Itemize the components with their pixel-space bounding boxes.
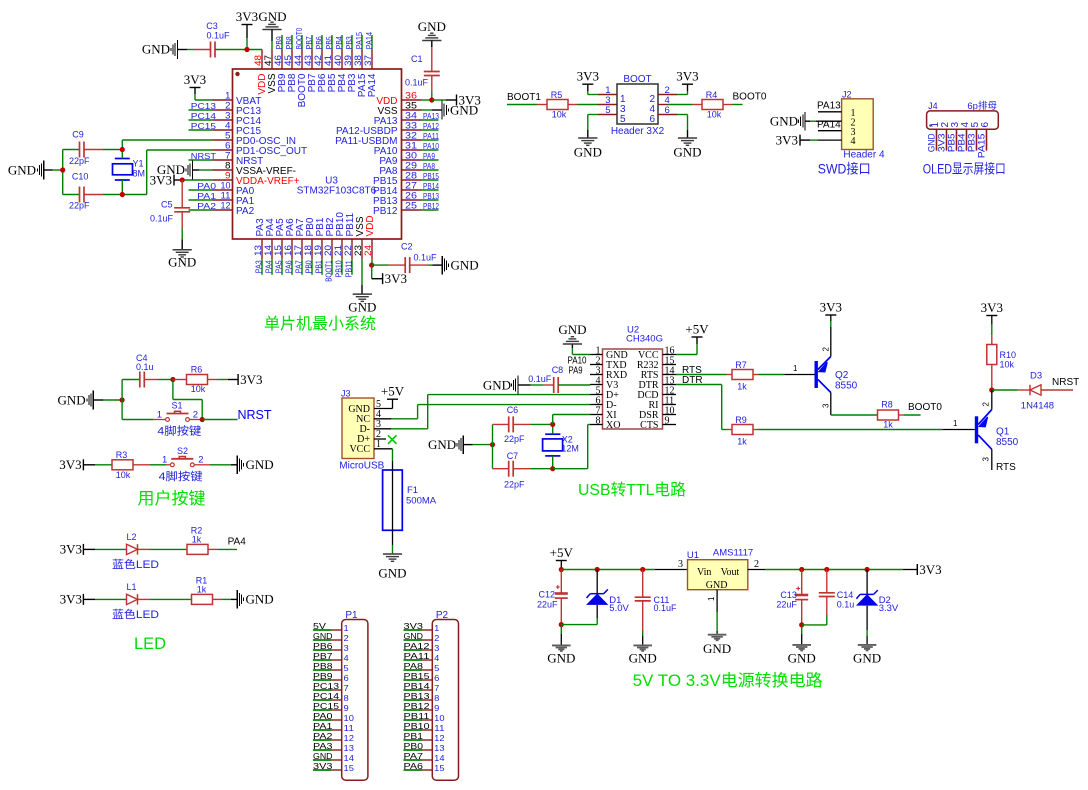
svg-text:R7: R7 (735, 360, 747, 370)
svg-text:PB0: PB0 (404, 741, 424, 751)
svg-text:PB13: PB13 (423, 192, 439, 201)
svg-text:GND: GND (313, 751, 333, 761)
svg-text:R3: R3 (116, 450, 128, 460)
svg-text:7: 7 (434, 683, 439, 693)
svg-text:PA8: PA8 (404, 661, 424, 671)
svg-text:BOOT1: BOOT1 (507, 92, 541, 103)
title power conversion (633, 671, 823, 690)
wire J3 pin1 to fuse (374, 449, 393, 470)
svg-text:PB9: PB9 (313, 671, 333, 681)
svg-text:13: 13 (434, 743, 445, 753)
LED L2 (112, 532, 187, 571)
header BOOT pin2 wire (658, 94, 677, 96)
power 3V3 at pin 9 (VDDA) (150, 172, 183, 187)
svg-text:1: 1 (162, 455, 167, 466)
svg-text:BOOT1: BOOT1 (325, 260, 334, 282)
svg-text:P1: P1 (345, 610, 358, 621)
svg-text:PA0: PA0 (313, 711, 333, 721)
svg-text:1: 1 (793, 364, 798, 373)
svg-text:5: 5 (620, 114, 626, 125)
svg-text:R5: R5 (551, 90, 563, 100)
svg-text:GND: GND (418, 19, 446, 34)
power 3V3 top (236, 9, 258, 50)
svg-text:PC13: PC13 (191, 102, 217, 111)
svg-text:0.1uF: 0.1uF (405, 78, 429, 88)
svg-text:PA4: PA4 (228, 536, 247, 547)
svg-text:PC15: PC15 (313, 701, 339, 711)
power 3V3 at pin 1 (184, 72, 213, 100)
junction X2 bottom (550, 466, 555, 471)
wire BOOT pin6 to GND (677, 115, 688, 139)
svg-text:1k: 1k (192, 535, 202, 545)
svg-text:1: 1 (434, 623, 439, 633)
svg-text:2: 2 (754, 559, 759, 570)
svg-text:PB14: PB14 (404, 681, 430, 691)
capacitor C7 (493, 451, 553, 489)
junction rail D2 (865, 567, 870, 572)
power GND left of C6 C7 (428, 435, 492, 454)
svg-text:C7: C7 (507, 451, 519, 461)
svg-text:PB0: PB0 (305, 260, 314, 273)
svg-text:10k: 10k (707, 110, 722, 120)
svg-text:+5V: +5V (550, 545, 574, 560)
svg-text:GND: GND (142, 42, 170, 57)
net label BOOT0 right of R4 (733, 91, 767, 104)
svg-text:3V3: 3V3 (59, 457, 81, 472)
crystal Y1 (113, 150, 146, 195)
svg-text:PB11: PB11 (345, 260, 354, 278)
capacitor C13 (776, 570, 808, 625)
label OLED interface (923, 161, 1006, 177)
svg-text:Q1: Q1 (996, 427, 1010, 438)
svg-text:GND: GND (451, 257, 479, 272)
svg-text:BOOT: BOOT (623, 74, 651, 85)
header BOOT pin1 wire (598, 94, 617, 96)
wire R7 to Q2 base (759, 364, 815, 375)
svg-text:PB10: PB10 (404, 721, 430, 731)
zener D2 (856, 570, 899, 645)
wire S1 left vertical (121, 380, 123, 420)
svg-text:AMS1117: AMS1117 (713, 548, 753, 559)
resistor R9 (727, 415, 759, 447)
header BOOT pin5 wire (598, 114, 617, 116)
power 3V3 output (917, 562, 941, 577)
header P2 body (432, 610, 458, 780)
svg-text:4脚按键: 4脚按键 (159, 469, 203, 483)
svg-text:GND: GND (703, 641, 731, 656)
wire 5V rail (561, 559, 687, 570)
svg-text:14: 14 (434, 753, 445, 763)
svg-text:Header 3X2: Header 3X2 (611, 126, 665, 137)
svg-text:PA11: PA11 (423, 132, 439, 141)
svg-text:GND: GND (629, 651, 657, 666)
svg-text:3V3: 3V3 (240, 372, 262, 387)
svg-text:PB12: PB12 (373, 206, 398, 217)
svg-text:10: 10 (344, 713, 355, 723)
wire BOOT pin5 to GND (588, 115, 598, 139)
svg-text:PA2: PA2 (313, 731, 333, 741)
transistor Q1 (975, 390, 1019, 449)
zener D1 (561, 570, 629, 625)
header BOOT pin4 wire (658, 104, 693, 106)
svg-text:3V3: 3V3 (60, 592, 82, 607)
wire R6 junction to S1 pin2 (173, 380, 202, 420)
wire fuse to GND (392, 530, 394, 554)
title LED (134, 635, 166, 653)
capacitor C2 (372, 242, 437, 274)
svg-text:GND: GND (168, 255, 196, 270)
junction C12 bottom (559, 622, 564, 627)
svg-text:J4: J4 (928, 101, 938, 111)
power 3V3 left of BOOT (577, 69, 599, 95)
power GND right of C2 (432, 256, 478, 275)
svg-text:SWD接口: SWD接口 (818, 161, 871, 177)
svg-text:BOOT0: BOOT0 (733, 91, 767, 102)
capacitor C10 (63, 172, 123, 211)
header BOOT pin6 wire (658, 114, 677, 116)
power GND right of S2 (231, 456, 274, 475)
svg-text:PA1: PA1 (313, 721, 333, 731)
svg-text:用户按键: 用户按键 (138, 489, 206, 508)
svg-text:Y1: Y1 (133, 158, 144, 168)
svg-text:BOOT0: BOOT0 (908, 402, 942, 413)
U3 bottom pin names and numbers (253, 212, 376, 256)
junction at VDDA (180, 177, 185, 182)
svg-text:PB15: PB15 (423, 172, 439, 181)
title user buttons (138, 489, 206, 508)
svg-text:F1: F1 (407, 485, 418, 496)
svg-text:3: 3 (982, 457, 991, 462)
svg-text:STM32F103C8T6: STM32F103C8T6 (297, 186, 377, 197)
capacitor C8 (528, 365, 590, 393)
power GND right of pin 35 (422, 101, 479, 120)
svg-text:10k: 10k (116, 470, 131, 480)
svg-text:GND: GND (348, 300, 376, 315)
junction rail C13 (799, 567, 804, 572)
svg-text:VDD: VDD (365, 215, 376, 236)
resistor R8 (878, 400, 905, 430)
svg-text:3V3: 3V3 (404, 621, 424, 631)
power 3V3 left of L2 (60, 542, 127, 557)
junction C4-R6 (170, 377, 175, 382)
wire J3 pin3 to U2 D+ (374, 395, 590, 429)
header BOOT box (611, 74, 665, 137)
svg-text:CH340G: CH340G (626, 334, 663, 345)
no-connect X at J3 pin2 (374, 435, 397, 444)
svg-text:LED: LED (134, 635, 166, 653)
diode D3 (992, 371, 1073, 412)
svg-text:1: 1 (157, 409, 162, 420)
ground below C13 (788, 645, 816, 665)
svg-text:CTS: CTS (640, 420, 658, 431)
svg-text:6: 6 (980, 122, 991, 128)
svg-text:PB1: PB1 (315, 260, 324, 273)
wire X2 top to U2 XI (553, 415, 590, 425)
svg-text:GND: GND (558, 322, 586, 337)
svg-text:15: 15 (344, 763, 355, 773)
svg-text:GND: GND (483, 377, 511, 392)
wire X2 bottom to U2 XO (553, 425, 590, 469)
svg-text:PA0: PA0 (197, 182, 217, 191)
svg-text:PB6: PB6 (315, 36, 324, 49)
junction crystal bottom (120, 192, 125, 197)
svg-text:蓝色LED: 蓝色LED (112, 607, 159, 621)
svg-text:GND: GND (404, 631, 424, 641)
resistor R3 (112, 450, 150, 480)
header P2 pins (404, 621, 445, 773)
power GND above C1 (418, 19, 446, 47)
power +5V above U2 VCC (676, 322, 709, 355)
power 3V3 below pin 24 (372, 265, 407, 286)
junction rail C14 (824, 567, 829, 572)
svg-text:GND: GND (378, 566, 406, 581)
svg-text:P2: P2 (436, 610, 449, 621)
svg-text:3V3: 3V3 (385, 271, 407, 286)
svg-text:10k: 10k (552, 110, 567, 120)
svg-text:22pF: 22pF (69, 156, 90, 166)
svg-text:GND: GND (673, 145, 701, 160)
junction C6-C7 left (490, 442, 495, 447)
svg-text:PA15: PA15 (977, 134, 988, 159)
wire U2 DTR to R9 (676, 385, 727, 430)
capacitor C12 (537, 570, 568, 625)
svg-text:5.0V: 5.0V (609, 603, 629, 614)
wire junction down to C5 (181, 180, 183, 208)
svg-text:1: 1 (344, 623, 349, 633)
svg-text:6p排母: 6p排母 (967, 100, 997, 112)
title minimal system (264, 315, 376, 333)
net label PA10 at U2 pin2 (568, 356, 587, 367)
wire U1 out rail (748, 559, 918, 570)
connector J3 pin names (348, 399, 381, 455)
svg-text:PA3: PA3 (313, 741, 333, 751)
svg-text:3V3: 3V3 (150, 172, 172, 187)
svg-text:PB4: PB4 (335, 36, 344, 49)
svg-text:S2: S2 (177, 446, 188, 456)
svg-text:3V3: 3V3 (184, 72, 206, 87)
U3 left pin names and numbers (221, 91, 308, 217)
wire Q2 collector to R8 (822, 393, 878, 416)
wire C13 to GND (801, 625, 803, 644)
svg-text:5: 5 (434, 663, 439, 673)
svg-text:PA14: PA14 (817, 120, 841, 131)
wire C12 to GND (560, 625, 562, 645)
svg-text:RTS: RTS (996, 462, 1016, 473)
capacitor C11 (635, 570, 677, 645)
svg-text:2: 2 (982, 402, 991, 407)
svg-text:Header 4: Header 4 (843, 150, 885, 161)
svg-text:Vin: Vin (697, 567, 711, 578)
wire C9-C10 left vertical (62, 150, 64, 195)
svg-text:11: 11 (434, 723, 445, 733)
net label RTS at U2 pin14 (682, 365, 702, 376)
svg-text:0.1uF: 0.1uF (654, 603, 678, 613)
junction rail D1 (595, 567, 600, 572)
svg-text:PB12: PB12 (423, 202, 439, 211)
header P1 body (342, 610, 368, 780)
svg-text:PB8: PB8 (285, 36, 294, 49)
net label NRST at S1 (202, 408, 272, 422)
header BOOT pin numbers (605, 85, 670, 125)
svg-text:GND: GND (8, 162, 36, 177)
svg-text:C5: C5 (161, 200, 173, 210)
svg-text:10k: 10k (1000, 360, 1015, 370)
svg-text:4脚按键: 4脚按键 (157, 423, 201, 437)
svg-text:0.1uF: 0.1uF (206, 31, 230, 41)
svg-text:C14: C14 (837, 590, 854, 600)
power GND above U2 (558, 322, 590, 355)
svg-text:S1: S1 (171, 401, 182, 411)
svg-text:PA6: PA6 (404, 761, 424, 771)
ground below BOOT right (673, 138, 701, 160)
svg-text:3V3: 3V3 (236, 9, 258, 24)
svg-text:12: 12 (344, 733, 355, 743)
junction 3V3-C3 (244, 47, 249, 52)
svg-text:NRST: NRST (1052, 377, 1079, 388)
svg-text:GND: GND (547, 651, 575, 666)
svg-text:PB15: PB15 (404, 671, 430, 681)
svg-text:PB12: PB12 (404, 701, 430, 711)
power GND left of C3 (142, 40, 193, 59)
U3 bottom pins (262, 239, 372, 259)
fuse F1 (383, 470, 437, 530)
svg-text:PB8: PB8 (313, 661, 333, 671)
svg-text:8M: 8M (133, 169, 146, 179)
power +5V supply (550, 545, 574, 570)
U3 right pin names and numbers (335, 91, 417, 217)
transistor Q2 (815, 357, 858, 393)
svg-text:3: 3 (822, 403, 831, 408)
wire Q2 emitter to 3V3 (822, 315, 831, 357)
svg-text:PA2: PA2 (236, 206, 255, 217)
wire pin9 to junction (182, 179, 212, 181)
power 3V3 right of BOOT (676, 69, 698, 95)
title USB to TTL (578, 481, 686, 499)
svg-text:+5V: +5V (381, 384, 405, 399)
svg-text:PA7: PA7 (404, 751, 424, 761)
connector J2 body (842, 90, 885, 161)
svg-text:PA15: PA15 (355, 32, 364, 50)
wire U2 RTS to R7 (676, 374, 727, 376)
svg-text:J2: J2 (842, 90, 852, 100)
wire C6-C7 left vertical (492, 424, 494, 468)
U3 left net label stubs (189, 102, 217, 211)
wire Q1 collector to RTS (982, 449, 1017, 473)
U3 bottom net label stubs (255, 259, 354, 282)
svg-text:GND: GND (853, 650, 881, 665)
svg-text:2: 2 (344, 633, 349, 643)
svg-text:3V3: 3V3 (676, 69, 698, 84)
power GND left of S1 (58, 391, 123, 410)
wire pin5 OSC_IN to crystal top (122, 140, 212, 150)
svg-text:PB14: PB14 (423, 182, 439, 191)
svg-text:J3: J3 (341, 389, 351, 399)
svg-text:PA14: PA14 (367, 73, 378, 97)
junction Q1 emitter node (989, 387, 994, 392)
svg-text:C3: C3 (206, 21, 218, 31)
IC U2 pin stubs (590, 355, 676, 425)
capacitor C1 (405, 47, 440, 100)
svg-text:1: 1 (707, 596, 716, 601)
net label BOOT1 (507, 92, 541, 105)
svg-text:3V3: 3V3 (981, 300, 1003, 315)
svg-text:3V3: 3V3 (60, 542, 82, 557)
svg-text:1k: 1k (197, 585, 207, 595)
capacitor C5 (150, 200, 190, 224)
svg-text:MicroUSB: MicroUSB (339, 460, 384, 471)
wire pin36 to junction (422, 99, 432, 101)
resistor R4 (693, 90, 733, 120)
svg-text:D3: D3 (1030, 371, 1042, 382)
svg-text:R9: R9 (735, 415, 747, 425)
power 3V3 above R10 (981, 300, 1003, 316)
MCU U3 STM32F103C8T6 body (233, 69, 402, 239)
svg-text:PA8: PA8 (423, 162, 435, 171)
svg-text:GND: GND (574, 145, 602, 160)
svg-text:0.1uF: 0.1uF (528, 374, 552, 384)
svg-text:3: 3 (434, 643, 439, 653)
wire J3 pin4 to U2 D- (374, 405, 590, 419)
svg-text:PB7: PB7 (305, 36, 314, 49)
power 3V3 left of R3 (59, 457, 112, 472)
svg-text:L2: L2 (126, 532, 136, 542)
power GND at pin 8 (VSSA) (157, 161, 213, 180)
wire pin6 OSC_OUT to crystal bottom (122, 150, 212, 195)
ground below D2 (853, 645, 881, 665)
power 3V3 right of R6 (218, 372, 262, 387)
capacitor C14 (802, 570, 855, 625)
svg-text:+5V: +5V (685, 322, 709, 337)
ground below C12 (547, 645, 575, 665)
resistor R7 (727, 360, 759, 392)
connector J4 pins (927, 122, 991, 159)
svg-text:单片机最小系统: 单片机最小系统 (264, 315, 376, 333)
svg-text:PA10: PA10 (423, 142, 439, 151)
junction VDD24 (369, 263, 374, 268)
LED L1 (112, 582, 192, 621)
svg-text:C1: C1 (411, 54, 423, 64)
svg-text:3V3: 3V3 (776, 133, 798, 148)
resistor R5 (537, 90, 577, 120)
svg-text:3V3: 3V3 (313, 761, 333, 771)
svg-text:VCC: VCC (349, 444, 370, 455)
svg-text:9: 9 (434, 703, 439, 713)
junction VDD36 (429, 97, 434, 102)
wire R5 to header pin3 (577, 104, 617, 106)
svg-text:2: 2 (198, 455, 203, 466)
connector J2 pin numbers (851, 108, 856, 147)
svg-text:PC14: PC14 (191, 112, 217, 121)
svg-text:6: 6 (344, 673, 349, 683)
svg-text:NRST: NRST (191, 152, 216, 161)
svg-text:1k: 1k (883, 420, 893, 430)
svg-text:22pF: 22pF (69, 201, 90, 211)
ground below fuse (378, 554, 406, 581)
svg-text:5V: 5V (313, 621, 326, 631)
svg-text:PC13: PC13 (313, 681, 339, 691)
svg-text:22uF: 22uF (776, 600, 797, 610)
power GND left of crystal caps (8, 161, 63, 180)
svg-text:XO: XO (606, 420, 620, 431)
regulator U1 AMS1117 (687, 548, 753, 592)
svg-text:5V TO 3.3V电源转换电路: 5V TO 3.3V电源转换电路 (633, 671, 823, 690)
header P1 pins (313, 621, 354, 773)
svg-text:C10: C10 (72, 172, 89, 182)
svg-text:OLED显示屏接口: OLED显示屏接口 (923, 161, 1006, 177)
svg-text:PB10: PB10 (335, 260, 344, 278)
svg-text:R8: R8 (881, 400, 893, 410)
power GND left of C8 (483, 376, 543, 395)
